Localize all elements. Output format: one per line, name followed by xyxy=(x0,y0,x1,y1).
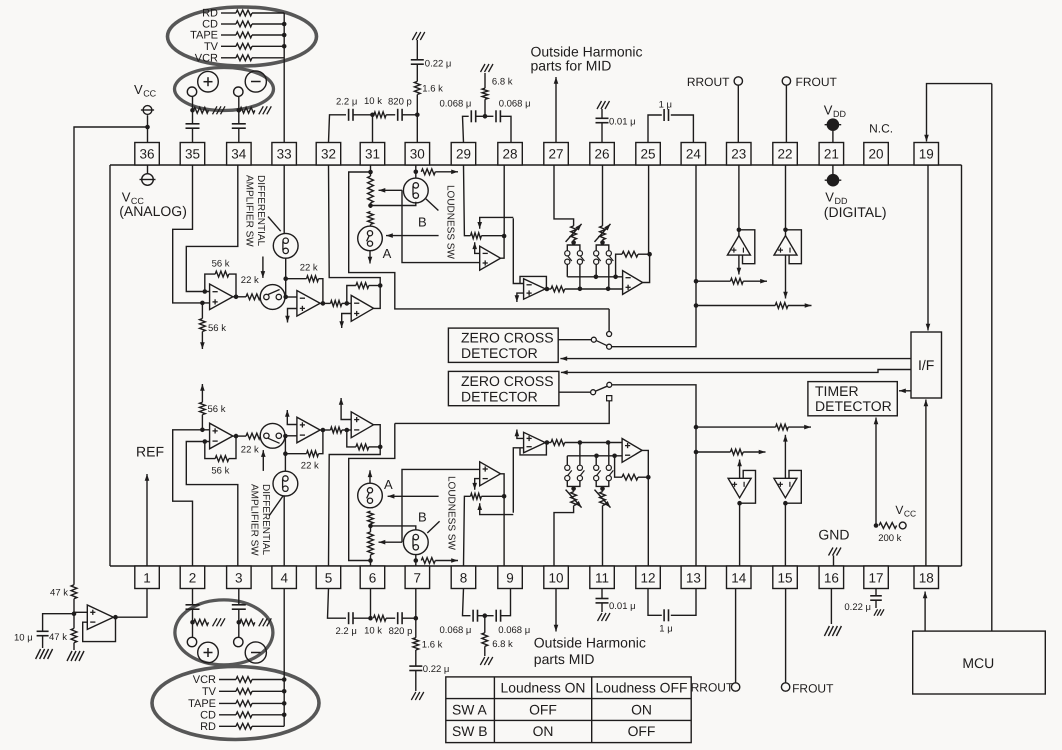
bus2b dots xyxy=(578,440,611,445)
svg-text:AMPLIFIER SW: AMPLIFIER SW xyxy=(248,484,259,556)
svg-text:ZERO CROSS: ZERO CROSS xyxy=(461,330,554,346)
svg-text:DD: DD xyxy=(833,109,846,119)
pin 27 xyxy=(544,143,569,166)
polarity mark - (bottom) xyxy=(245,642,266,663)
resistor loudness lower (pin31) xyxy=(368,212,374,227)
resistor 1.6k (bottom) xyxy=(413,618,443,650)
arrow up to sw xyxy=(261,450,266,471)
arrow right xyxy=(788,425,811,430)
bias resistor to ground (pin2 bottom) xyxy=(194,618,226,626)
wire U5b output xyxy=(545,440,551,445)
svg-text:CC: CC xyxy=(143,89,156,99)
arrow right xyxy=(743,279,767,284)
svg-text:Loudness ON: Loudness ON xyxy=(501,680,586,696)
op-amp U6 xyxy=(623,271,643,295)
svg-text:LOUDNESS SW: LOUDNESS SW xyxy=(446,476,457,550)
capacitor 2.2u (top) xyxy=(336,97,357,121)
switch SW1b (signal path, bottom) xyxy=(260,423,285,448)
arrow down xyxy=(285,309,297,323)
pin 35 xyxy=(180,143,205,166)
svg-text:ZERO CROSS: ZERO CROSS xyxy=(461,373,554,389)
pin 14 xyxy=(727,566,752,589)
op-amp U1b (bottom left) xyxy=(210,423,233,449)
pin 7 xyxy=(405,566,430,589)
resistor 1.6k (top) xyxy=(414,81,443,114)
wire Vcc to pin36 xyxy=(145,115,150,142)
label LOUDNESS SW (bottom) xyxy=(446,476,457,550)
svg-text:SW A: SW A xyxy=(452,701,487,717)
arrow up xyxy=(783,435,788,479)
wire U1b output xyxy=(233,434,246,439)
svg-text:TIMER: TIMER xyxy=(815,383,859,399)
VDD supply dot xyxy=(825,118,842,142)
resistor 6.8k (bottom) xyxy=(482,616,513,656)
label A (top) xyxy=(383,246,392,261)
resistor row buffer15 (upper) xyxy=(696,424,788,430)
arrow into zc1 xyxy=(560,356,911,361)
switch pair tone A (pin27) xyxy=(565,240,585,289)
svg-text:N.C.: N.C. xyxy=(869,122,893,136)
wire pin24 line dots xyxy=(694,279,699,308)
svg-text:0.01 μ: 0.01 μ xyxy=(609,116,636,127)
svg-text:200 k: 200 k xyxy=(878,533,901,544)
svg-text:B: B xyxy=(418,509,427,524)
table loudness xyxy=(446,677,691,743)
input CD (top) with resistor xyxy=(202,19,284,31)
resistor 10k (top) xyxy=(353,96,386,118)
terminal circle pin35 input xyxy=(187,87,196,96)
terminal RROUT (bottom) xyxy=(691,589,740,695)
switch pair tone B (pin26) xyxy=(594,240,614,289)
wire B bottom to stack node xyxy=(371,202,416,206)
terminal FROUT (bottom) xyxy=(781,589,834,696)
Vcc terminal pin 36 xyxy=(141,106,154,115)
pin 6 xyxy=(360,566,385,589)
resistor 200k to Vcc xyxy=(874,522,906,544)
svg-text:1 μ: 1 μ xyxy=(659,624,672,635)
resistor 22k series U1b out xyxy=(241,433,261,455)
arrow up xyxy=(737,460,742,479)
svg-text:36: 36 xyxy=(139,146,154,161)
wire U5 output xyxy=(545,287,551,292)
svg-text:0.068 μ: 0.068 μ xyxy=(499,99,531,110)
svg-text:22 k: 22 k xyxy=(241,445,259,456)
resistor 22k series U1 out xyxy=(241,275,261,300)
wire U2 out to U3 xyxy=(320,301,330,306)
svg-text:820 p: 820 p xyxy=(389,626,413,637)
wire pin10 to variable resistor xyxy=(554,506,574,566)
arrow into pin19 xyxy=(924,84,992,142)
pin 36 xyxy=(135,143,160,166)
pin 28 xyxy=(498,143,523,166)
wire pin5 to 2.2u cap xyxy=(328,589,347,619)
svg-text:26: 26 xyxy=(594,146,609,161)
svg-text:FROUT: FROUT xyxy=(792,682,834,696)
input RD (top) with resistor xyxy=(202,8,284,20)
wire pin6 node xyxy=(368,555,373,566)
Vcc ANALOG terminal inside xyxy=(140,165,156,185)
svg-text:LOUDNESS SW: LOUDNESS SW xyxy=(445,185,456,259)
pin 20 xyxy=(864,143,889,166)
pin 4 xyxy=(272,566,297,589)
arrow up xyxy=(145,474,150,566)
wire to center node xyxy=(476,114,494,119)
svg-text:OFF: OFF xyxy=(529,701,557,717)
pin 16 xyxy=(819,566,844,589)
capacitor 0.22u (pin17) xyxy=(844,589,881,613)
ground (top pin30) xyxy=(412,32,425,60)
variable resistor tone B (pin11) xyxy=(595,490,611,508)
arrow down xyxy=(554,589,559,632)
wire switch select riser bottom xyxy=(402,469,480,542)
arrow down xyxy=(783,255,788,298)
capacitor 0.01u (top) xyxy=(596,109,636,143)
svg-text:16: 16 xyxy=(824,571,839,586)
svg-text:33: 33 xyxy=(277,146,292,161)
svg-text:parts for MID: parts for MID xyxy=(531,58,612,74)
switch SW2b diff-amp on pin4 line xyxy=(273,434,298,566)
switch B (loudness, top) xyxy=(403,178,428,203)
svg-text:12: 12 xyxy=(640,571,655,586)
ground 10u xyxy=(36,649,53,659)
wire pin32 to 2.2u cap xyxy=(329,115,347,143)
svg-text:22: 22 xyxy=(777,146,792,161)
svg-text:DETECTOR: DETECTOR xyxy=(815,398,892,414)
wire pin7 node xyxy=(414,555,419,567)
svg-text:0.22 μ: 0.22 μ xyxy=(425,59,452,70)
svg-text:TAPE: TAPE xyxy=(188,698,216,710)
resistor pin7 right + arrow xyxy=(421,558,435,564)
wire pin35 to op-amp1 + input xyxy=(173,165,210,305)
input RD (bottom) with resistor xyxy=(200,721,284,733)
coupling-cap ellipse (bottom) xyxy=(175,600,273,665)
op-amp U4b xyxy=(480,462,501,486)
bus2 dots xyxy=(578,287,611,292)
arrow into zc2 xyxy=(561,370,911,375)
switch A (loudness, top) xyxy=(358,226,383,251)
box MCU xyxy=(913,631,1046,694)
wire U3 output to feedback node xyxy=(374,286,381,309)
input TV (top) with resistor xyxy=(204,41,284,53)
label REF xyxy=(136,444,164,460)
resistor 22k feedback U2 xyxy=(286,262,323,303)
capacitor 820p (bottom) xyxy=(386,612,412,637)
pin 11 xyxy=(590,566,615,589)
Vcc ANALOG label xyxy=(119,190,187,220)
polarity mark + (bottom) xyxy=(198,642,219,663)
pin 19 xyxy=(914,143,939,166)
resistor row buffer22 xyxy=(696,303,788,309)
svg-text:6: 6 xyxy=(369,571,377,586)
svg-text:TV: TV xyxy=(202,686,217,698)
pin 21 xyxy=(819,143,844,166)
pin 25 xyxy=(636,143,661,166)
svg-text:10 k: 10 k xyxy=(364,626,382,637)
svg-text:56 k: 56 k xyxy=(211,465,229,476)
resistor series U5 out xyxy=(551,286,623,292)
capacitor 1u (bottom pins 12/13) xyxy=(648,589,696,635)
source-select ellipse (top) xyxy=(168,7,317,66)
buffer amp pin 15 xyxy=(774,470,801,566)
svg-text:28: 28 xyxy=(502,146,517,161)
table row SW A xyxy=(452,701,652,717)
resistor loudness upper (pin6) xyxy=(368,511,374,526)
svg-text:1 μ: 1 μ xyxy=(659,99,672,110)
op-amp U2 xyxy=(297,291,320,317)
bus1 to op-amp6 - input xyxy=(567,275,622,280)
ground (bottom 6.8k) xyxy=(480,657,493,665)
svg-text:1.6 k: 1.6 k xyxy=(422,640,443,651)
svg-text:1.6 k: 1.6 k xyxy=(422,84,443,95)
capacitor 2.2u (bottom) xyxy=(336,612,357,637)
resistor pin30 right + arrow xyxy=(421,169,435,175)
pin 2 xyxy=(180,566,205,589)
wire Vcc rail to left xyxy=(74,127,148,585)
svg-text:RROUT: RROUT xyxy=(687,75,730,89)
svg-text:18: 18 xyxy=(919,571,934,586)
wire pin11 to variable resistor xyxy=(602,506,604,566)
resistor 56k lower U1 xyxy=(200,303,227,334)
feedback loop U5b xyxy=(520,443,546,455)
svg-text:11: 11 xyxy=(595,571,609,586)
arrow up xyxy=(339,398,351,420)
svg-text:VCR: VCR xyxy=(193,674,216,686)
pin 9 xyxy=(498,566,523,589)
svg-text:2.2 μ: 2.2 μ xyxy=(336,626,357,637)
polarity mark - (top) xyxy=(245,71,266,92)
wire pin28 line xyxy=(503,165,505,236)
svg-text:AMPLIFIER SW: AMPLIFIER SW xyxy=(243,175,254,247)
svg-text:RD: RD xyxy=(200,721,216,733)
arrow to sw xyxy=(261,257,266,278)
svg-text:56 k: 56 k xyxy=(212,258,230,269)
pin 24 xyxy=(681,143,706,166)
svg-text:20: 20 xyxy=(868,146,883,161)
svg-text:22 k: 22 k xyxy=(300,262,318,273)
wire U6b output to pin12 xyxy=(642,450,648,477)
wire pin5 to U3b feedback node xyxy=(329,447,381,566)
Vcc label right xyxy=(895,503,916,519)
arrow left xyxy=(388,494,439,499)
svg-text:56 k: 56 k xyxy=(208,404,226,415)
wire REF buffer output to pin1 xyxy=(113,589,147,618)
pointer line to diff sw circle xyxy=(268,217,281,232)
op-amp U1 (top left) xyxy=(210,284,233,310)
svg-text:V: V xyxy=(824,102,833,117)
arrow down xyxy=(737,255,742,274)
arrow up xyxy=(924,400,929,567)
svg-text:14: 14 xyxy=(731,571,747,586)
ground (bottom pin11) xyxy=(598,613,611,621)
input TV (bottom) with resistor xyxy=(202,686,284,698)
wire pin13 line dots xyxy=(694,425,699,455)
svg-text:2: 2 xyxy=(189,571,197,586)
resistor feedback U6 to pin25 xyxy=(616,251,652,276)
svg-text:TAPE: TAPE xyxy=(190,30,218,42)
capacitor 0.22u (bottom) xyxy=(409,650,449,691)
pin 17 xyxy=(864,566,889,589)
wire to pin7 node bottom xyxy=(371,589,419,621)
svg-text:8: 8 xyxy=(460,571,468,586)
arrow up xyxy=(200,384,205,402)
svg-text:0.22 μ: 0.22 μ xyxy=(423,664,450,675)
arrow right xyxy=(435,558,458,563)
pin 8 xyxy=(451,566,476,589)
variable resistor tone A (pin27) xyxy=(566,224,582,242)
wire pin29 into volume row xyxy=(464,165,471,236)
svg-text:V: V xyxy=(825,190,834,205)
svg-text:31: 31 xyxy=(365,146,380,161)
wire U1 output xyxy=(233,295,246,300)
source-select ellipse (bottom) xyxy=(152,667,319,740)
svg-text:13: 13 xyxy=(686,571,701,586)
svg-text:30: 30 xyxy=(410,146,425,161)
svg-text:CC: CC xyxy=(904,508,916,518)
arrow down to res xyxy=(477,217,513,228)
pin 34 xyxy=(227,143,252,166)
switch B (loudness, bottom) xyxy=(403,530,428,555)
svg-text:DETECTOR: DETECTOR xyxy=(461,389,538,405)
svg-text:VCR: VCR xyxy=(195,52,218,64)
arrow up to res xyxy=(472,242,479,253)
svg-text:19: 19 xyxy=(919,146,934,161)
wire to pin9 bottom xyxy=(501,589,511,616)
svg-text:10 μ: 10 μ xyxy=(14,633,33,644)
wire zc2 square tap to lower channel xyxy=(395,401,609,424)
variable resistor tone A (pin10) xyxy=(566,490,582,508)
wire staircase to U5b xyxy=(513,448,523,513)
ground (bottom pin16) xyxy=(824,626,841,636)
resistor row buffer23 xyxy=(696,278,743,284)
pin 12 xyxy=(636,566,661,589)
label DIFFERENTIAL AMPLIFIER SW (bottom) xyxy=(248,484,271,556)
wire pin9 line xyxy=(503,496,505,566)
wire U2b out to U3b xyxy=(320,428,330,433)
switch A (loudness, bottom) xyxy=(358,483,383,508)
op-amp U5 xyxy=(524,279,546,300)
arrow left xyxy=(386,233,439,238)
terminal RROUT (top) xyxy=(687,75,743,143)
capacitor 820p (top) xyxy=(386,97,412,121)
wire sw to op-amp2 - input xyxy=(285,296,297,298)
svg-text:DETECTOR: DETECTOR xyxy=(461,345,538,361)
resistor 47k upper xyxy=(50,585,77,629)
arrow up xyxy=(874,418,879,526)
node bus to pin 4 xyxy=(282,589,287,727)
Vcc label (top left) xyxy=(134,82,157,99)
variable resistor tone B (pin26) xyxy=(595,224,611,242)
bus1b to op-amp6b - input xyxy=(567,454,622,459)
arrow up xyxy=(285,410,297,425)
svg-text:23: 23 xyxy=(731,146,746,161)
wire pin16 to ground xyxy=(830,589,832,625)
wire B bottom to stack node xyxy=(371,526,416,530)
svg-text:2.2 μ: 2.2 μ xyxy=(336,97,357,108)
label GND xyxy=(818,527,849,543)
pin 29 xyxy=(451,143,476,166)
svg-text:DIFFERENTIAL: DIFFERENTIAL xyxy=(260,484,271,556)
resistor series U5b out xyxy=(551,440,622,446)
svg-text:0.01 μ: 0.01 μ xyxy=(609,601,636,612)
box ZERO CROSS DETECTOR 1 xyxy=(448,328,558,362)
label A (bottom) xyxy=(384,477,393,492)
arrow down to res xyxy=(472,479,479,490)
arrow down xyxy=(200,332,205,350)
box I/F xyxy=(911,332,942,398)
svg-text:47 k: 47 k xyxy=(49,632,67,643)
svg-text:47 k: 47 k xyxy=(50,588,68,599)
svg-text:V: V xyxy=(134,82,143,97)
ground (top 6.8k) xyxy=(481,64,494,72)
VDD label (top) xyxy=(824,102,847,119)
wire pin31 node xyxy=(368,165,373,176)
svg-text:TV: TV xyxy=(204,41,219,53)
switch zero-cross-1 xyxy=(558,309,611,349)
op-amp U4 (loudness amp) xyxy=(480,246,501,270)
svg-text:A: A xyxy=(383,246,392,261)
table header Loudness OFF xyxy=(596,680,688,696)
svg-text:REF: REF xyxy=(136,444,164,460)
capacitor 0.068u right (top) xyxy=(496,99,531,123)
coupling capacitor pin3 xyxy=(232,589,246,638)
wire U6 output to pin25 xyxy=(643,254,650,282)
arrow right xyxy=(788,303,812,308)
box TIMER DETECTOR xyxy=(808,382,897,416)
arrow down xyxy=(926,165,931,331)
svg-text:15: 15 xyxy=(777,571,792,586)
label Outside Harmonic parts MID xyxy=(534,635,646,667)
capacitor 10u xyxy=(14,614,74,648)
svg-text:A: A xyxy=(384,477,393,492)
arrow down xyxy=(339,314,351,329)
ground (pin17) xyxy=(874,600,884,616)
label Outside Harmonic parts for MID xyxy=(531,44,643,74)
N.C. label xyxy=(869,122,893,136)
pin 33 xyxy=(272,143,297,166)
coupling-cap ellipse (top) xyxy=(175,68,274,111)
pin 23 xyxy=(727,143,752,166)
capacitor 0.068u right (bottom) xyxy=(496,610,530,636)
svg-text:10 k: 10 k xyxy=(364,96,382,107)
pin 31 xyxy=(360,143,385,166)
wire pin27 to variable resistor xyxy=(554,165,574,226)
wire zc2 switch to pin13 line xyxy=(612,385,696,566)
pin 10 xyxy=(544,566,569,589)
resistor row buffer14 (lower) xyxy=(696,449,743,455)
table row SW B xyxy=(452,723,655,739)
arrow pin27 up xyxy=(554,77,559,143)
svg-text:35: 35 xyxy=(185,146,200,161)
wire pin26 to variable resistor xyxy=(602,165,604,226)
capacitor 0.01u (bottom pin11) xyxy=(596,589,636,613)
pin 30 xyxy=(405,143,430,166)
svg-text:820 p: 820 p xyxy=(388,97,412,108)
svg-text:OFF: OFF xyxy=(628,723,656,739)
arrow down xyxy=(515,293,524,302)
wire sw to op-amp2b - input xyxy=(285,435,297,437)
arrow left xyxy=(899,389,911,394)
pin 5 xyxy=(316,566,341,589)
wire pin8 to 0.068u bottom xyxy=(463,589,471,616)
pin 22 xyxy=(773,143,798,166)
pointer to B bottom xyxy=(427,521,439,533)
resistor feedback U3b xyxy=(347,430,383,450)
capacitor 0.068u left (bottom) xyxy=(440,610,478,636)
arrow left xyxy=(379,540,403,545)
input TAPE (bottom) with resistor xyxy=(188,698,284,710)
arrow up into pin18 xyxy=(923,592,928,632)
VDD digital dot inside xyxy=(825,165,842,187)
